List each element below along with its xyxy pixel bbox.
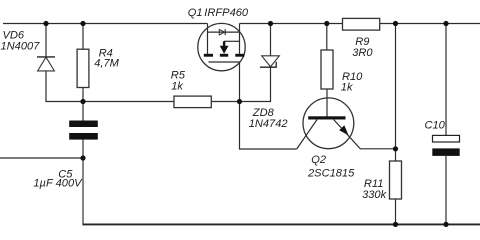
svg-text:1N4742: 1N4742: [249, 118, 288, 130]
svg-text:C10: C10: [425, 119, 446, 131]
svg-text:1k: 1k: [341, 82, 354, 94]
svg-text:3R0: 3R0: [352, 47, 373, 59]
svg-text:1N4007: 1N4007: [1, 41, 41, 53]
svg-text:Q2: Q2: [311, 154, 326, 166]
svg-text:ZD8: ZD8: [252, 107, 275, 119]
svg-text:R5: R5: [171, 70, 186, 82]
svg-text:4,7M: 4,7M: [94, 58, 119, 70]
svg-text:330k: 330k: [362, 189, 388, 201]
svg-text:IRFP460: IRFP460: [204, 7, 249, 19]
svg-text:Q1: Q1: [188, 7, 203, 19]
svg-text:1µF 400V: 1µF 400V: [33, 178, 83, 190]
svg-text:1k: 1k: [171, 81, 184, 93]
svg-text:VD6: VD6: [3, 30, 25, 42]
svg-text:2SC1815: 2SC1815: [307, 168, 355, 180]
